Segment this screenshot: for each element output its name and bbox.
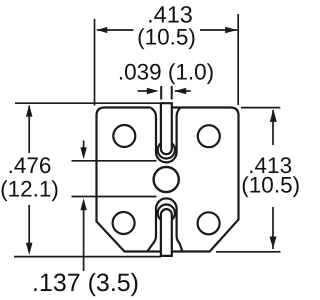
pin width dim right tick bbox=[171, 86, 173, 100]
svg-text:(10.5): (10.5) bbox=[137, 25, 196, 50]
slot gap up arrowhead bbox=[80, 198, 86, 210]
top terminal pin bbox=[161, 103, 172, 154]
slot gap dim lower extension line bbox=[72, 196, 157, 198]
hole top-left bbox=[113, 125, 135, 147]
svg-text:.413: .413 bbox=[147, 2, 193, 28]
left dim up arrowhead bbox=[26, 105, 33, 117]
svg-text:(12.1): (12.1) bbox=[0, 177, 59, 202]
top dim line left segment bbox=[97, 29, 134, 31]
pin width left arrowhead bbox=[147, 88, 159, 94]
pin width dim left tick bbox=[160, 86, 162, 100]
bottom terminal ring bbox=[158, 205, 175, 222]
right dim line lower segment bbox=[272, 207, 274, 249]
slot gap dim upper arrow shaft bbox=[83, 141, 85, 149]
right dim up arrowhead bbox=[270, 109, 277, 122]
top terminal slot bbox=[151, 108, 181, 163]
capacitor body outline right/top/bottom-right bbox=[172, 108, 239, 252]
right dim down arrowhead bbox=[270, 237, 277, 249]
left dim line upper segment bbox=[28, 106, 30, 153]
top terminal ring bbox=[158, 141, 175, 158]
svg-text:.039 (1.0): .039 (1.0) bbox=[118, 60, 214, 85]
top dim left arrowhead bbox=[97, 27, 108, 33]
hole top-right bbox=[198, 125, 220, 147]
center vent circle bbox=[154, 167, 179, 192]
svg-text:(10.5): (10.5) bbox=[241, 173, 300, 198]
left dim line lower segment bbox=[28, 205, 30, 252]
top dim line right segment bbox=[200, 29, 237, 31]
left dim down arrowhead bbox=[26, 243, 33, 255]
bottom terminal slot bbox=[147, 198, 182, 251]
svg-text:.476: .476 bbox=[8, 153, 52, 178]
svg-text:.137 (3.5): .137 (3.5) bbox=[32, 269, 139, 297]
right dim bottom extension line bbox=[216, 251, 281, 253]
slot gap dim leader to text bbox=[83, 209, 85, 271]
pin width right arrowhead bbox=[174, 88, 186, 94]
hole bottom-left bbox=[113, 212, 135, 234]
slot gap dim upper extension line bbox=[72, 160, 157, 162]
slot gap down arrowhead bbox=[80, 147, 86, 159]
left dim top extension line bbox=[15, 102, 160, 104]
left dim bottom extension line bbox=[14, 256, 161, 258]
top dim right arrowhead bbox=[225, 27, 237, 33]
pin width dim left arrow shaft bbox=[138, 90, 148, 92]
hole bottom-right bbox=[198, 212, 220, 234]
capacitor body outline left/top/bottom-left bbox=[97, 108, 161, 252]
top dim left extension line bbox=[94, 19, 96, 106]
bottom terminal pin bbox=[161, 209, 172, 256]
right dim line upper segment bbox=[272, 110, 274, 145]
right dim top extension line bbox=[241, 107, 280, 109]
top dim right extension line bbox=[237, 14, 239, 105]
pin width dim right arrow shaft bbox=[175, 90, 191, 92]
